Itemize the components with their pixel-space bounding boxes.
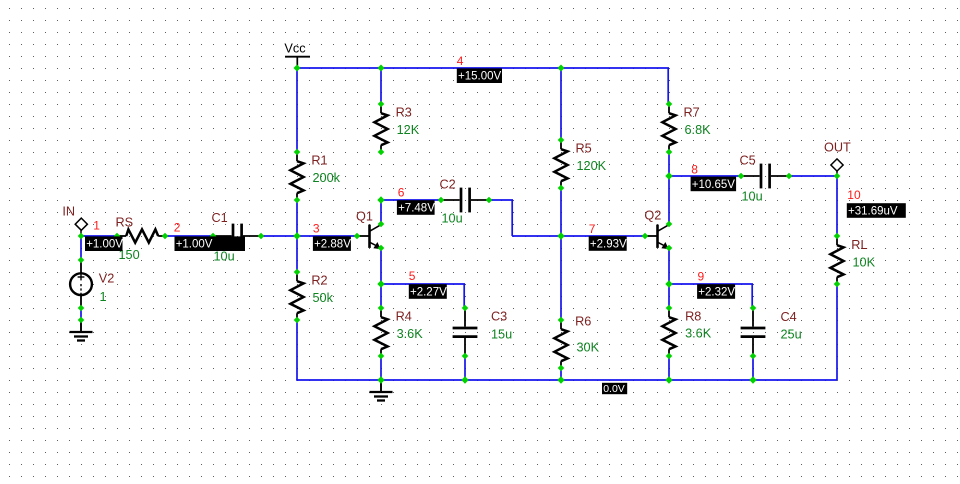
svg-text:200k: 200k [313,171,341,185]
svg-text:C5: C5 [740,154,756,168]
wire R7 to node 8 [668,152,670,176]
svg-text:1: 1 [93,218,100,232]
resistor R8 [662,305,711,360]
wire V2 to ground [80,308,82,320]
resistor RL [830,233,875,288]
ground rail junction at C4 [749,376,756,383]
wire R1 to node 3 [296,200,298,236]
port IN [62,205,87,236]
wire R2 to bottom rail [296,320,298,380]
port OUT [824,140,851,176]
svg-text:+15.00V: +15.00V [458,71,501,83]
svg-text:+10.65V: +10.65V [692,179,735,191]
ground rail junction at R6 [557,376,564,383]
svg-text:R8: R8 [685,309,701,323]
wire node 9 to R8 [668,284,670,308]
svg-text:+7.48V: +7.48V [398,203,435,215]
wire Vcc rail to R3 [380,68,382,104]
resistor R3 [374,101,419,156]
node 3 junction [293,232,300,239]
Vcc power symbol [284,41,310,68]
svg-text:25u: 25u [781,328,802,342]
svg-text:R1: R1 [311,154,327,168]
wire node 1 to RS [81,235,117,237]
svg-text:R6: R6 [575,315,591,329]
resistor R1 [290,149,340,204]
node 5 junction [377,280,384,287]
node 5 voltage label +2.27V [409,284,447,299]
svg-text:R2: R2 [311,274,327,288]
node 9 junction [665,280,672,287]
svg-text:Q2: Q2 [644,209,661,223]
node 7 voltage label +2.93V [589,236,627,251]
wire node 5 horizontal to C3 [381,284,465,308]
svg-text:R3: R3 [396,105,412,119]
wire Vcc top rail [297,68,669,104]
wire node 8 to C5 [669,175,741,177]
wire Q2 emitter to node 9 [668,248,670,284]
transistor Q1 [354,209,385,251]
svg-text:C1: C1 [212,211,228,225]
capacitor C1 [210,211,265,264]
wire C4 to bottom rail [752,356,754,380]
wire C2 to node 7 [489,200,645,236]
svg-text:C4: C4 [781,310,797,324]
transistor Q2 [642,209,673,252]
svg-text:Vcc: Vcc [284,41,306,55]
svg-text:6.8K: 6.8K [685,123,712,137]
wire R8 to bottom rail [668,356,670,380]
svg-text:50k: 50k [313,291,334,305]
svg-text:R4: R4 [396,309,412,323]
ground rail junction at R8 [665,376,672,383]
svg-text:3.6K: 3.6K [397,327,424,341]
svg-text:1: 1 [100,290,107,304]
wire C1 to Q1 base (node 3) [261,235,357,237]
ground below V2 [70,317,93,341]
svg-text:RL: RL [851,238,867,252]
node 8 number [691,163,698,177]
wire node 5 to R4 [380,284,382,308]
capacitor C2 [438,178,493,226]
wire R4 to bottom rail [380,356,382,380]
wire R6 to bottom rail [560,368,562,380]
wire node 9 to C4 [669,284,753,308]
svg-text:R7: R7 [684,105,700,119]
svg-text:5: 5 [409,269,416,283]
svg-text:3.6K: 3.6K [685,326,712,340]
node 4 voltage label +15.00V [457,68,502,83]
capacitor C3 [453,305,513,360]
capacitor C4 [741,305,802,360]
node 9 number [698,269,705,283]
wire bottom rail up to RL [836,284,838,380]
voltage source V2 [70,257,114,312]
wire node 2 RS to C1 [165,235,213,237]
resistor R7 [662,101,711,156]
svg-text:+1.00V: +1.00V [176,239,213,251]
wire Vcc rail to R5 [560,68,562,140]
svg-text:+31.69uV: +31.69uV [848,206,898,218]
svg-text:+2.88V: +2.88V [314,239,351,251]
ground below Q1 emitter branch [370,380,393,401]
resistor R4 [374,305,423,360]
svg-text:C3: C3 [491,310,507,324]
node 8 junction [665,172,672,179]
wire node 1 to V2 [80,236,82,260]
node 2 voltage label +1.00V [175,236,246,251]
svg-text:120K: 120K [577,159,607,173]
node 10 junction at OUT [834,173,841,180]
node 6 number [398,186,405,200]
wire Q1 emitter to node 5 [380,248,382,284]
wire R5 to node 7 [560,188,562,236]
wire C3 to bottom rail [464,356,466,380]
ground rail voltage label 0.0V [602,383,627,395]
node Vcc rail junction at R1 column [294,65,301,72]
svg-text:+2.93V: +2.93V [590,239,627,251]
node 7 number [589,222,596,236]
svg-text:9: 9 [698,269,705,283]
node 6 junction [377,196,384,203]
svg-text:6: 6 [398,186,405,200]
svg-text:2: 2 [174,221,181,235]
svg-text:IN: IN [62,205,75,219]
wire C5 to OUT [789,175,837,177]
svg-text:30K: 30K [577,340,600,354]
resistor R6 [554,315,599,372]
node 10 voltage label +31.69uV [847,203,906,218]
resistor R2 [290,269,333,324]
svg-text:R5: R5 [576,141,592,155]
resistor R5 [554,137,606,192]
svg-text:V2: V2 [99,271,115,285]
svg-text:10u: 10u [442,212,463,226]
wire node 6 to Q1 collector [380,200,382,224]
svg-text:4: 4 [457,54,464,68]
svg-text:10K: 10K [853,255,876,269]
node 7 junction [557,232,564,239]
node 10 number [847,188,861,202]
svg-text:10u: 10u [214,250,235,264]
node 6 voltage label +7.48V [397,200,435,215]
node 9 voltage label +2.32V [697,284,735,299]
node 4 junction at R3 column [378,65,385,72]
node 1 voltage label +1.00V [85,236,123,251]
node 3 voltage label +2.88V [313,236,351,251]
ground rail junction at C3 [461,376,468,383]
svg-text:+2.27V: +2.27V [410,287,447,299]
node 4 junction at R5 column [558,65,565,72]
wire OUT node down to RL [836,176,838,236]
node 2 number [174,221,181,235]
svg-text:0.0V: 0.0V [603,383,625,395]
wire node 8 to Q2 collector [668,176,670,224]
wire bottom ground rail [296,379,837,381]
node 5 number [409,269,416,283]
svg-text:OUT: OUT [824,140,851,154]
wire node 3 to R2 [296,236,298,272]
wire Vcc rail to R1 [296,68,298,152]
svg-text:C2: C2 [440,178,456,192]
svg-text:8: 8 [691,163,698,177]
svg-text:3: 3 [313,222,320,236]
node 4 number [457,54,464,68]
svg-text:10u: 10u [742,190,763,204]
node 3 number [313,222,320,236]
svg-text:10: 10 [847,188,861,202]
svg-text:+1.00V: +1.00V [86,239,123,251]
node 1 number [93,218,100,232]
node 1 junction [78,233,85,240]
svg-text:+2.32V: +2.32V [698,287,735,299]
svg-text:12K: 12K [397,123,420,137]
svg-text:7: 7 [589,222,596,236]
svg-text:RS: RS [116,216,134,230]
wire node 7 to R6 [560,236,562,320]
wire node 6 to C2 [381,199,441,201]
node 8 voltage label +10.65V [691,177,737,192]
resistor RS [114,216,169,262]
svg-text:Q1: Q1 [356,209,373,223]
capacitor C5 [738,154,793,204]
svg-text:15u: 15u [491,327,512,341]
ground rail junction at Q1 ground [377,376,384,383]
